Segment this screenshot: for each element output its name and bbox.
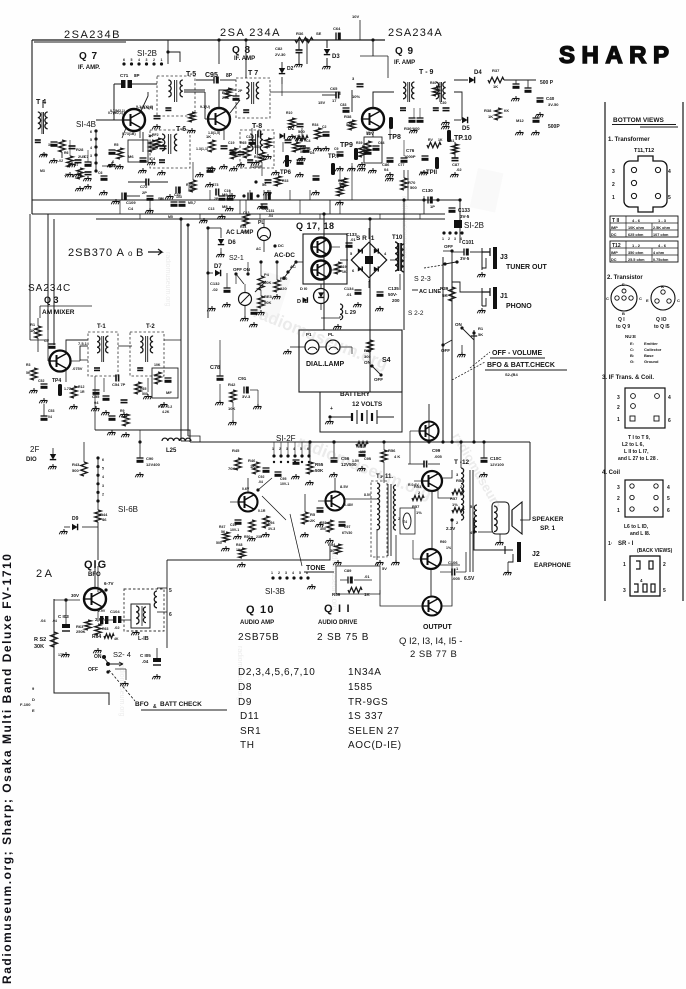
svg-text:&: & [153, 704, 157, 710]
svg-text:R5: R5 [310, 512, 316, 517]
wire q3 vert base [48, 330, 49, 361]
svg-text:500P: 500P [548, 124, 560, 130]
svg-text:C4: C4 [150, 156, 156, 161]
svg-text:4: 4 [90, 146, 92, 150]
svg-text:2SA234B: 2SA234B [64, 29, 121, 41]
svg-text:2: 2 [448, 237, 450, 241]
svg-text:C78: C78 [210, 365, 220, 371]
svg-text:C9: C9 [334, 147, 339, 151]
svg-text:AC LAMP: AC LAMP [226, 230, 253, 236]
svg-text:.02: .02 [456, 167, 462, 172]
svg-text:C71: C71 [120, 73, 129, 78]
svg-text:L25: L25 [166, 448, 177, 454]
svg-text:R42: R42 [228, 382, 236, 387]
label 0.17V [258, 509, 266, 513]
transistor Q16 [84, 588, 106, 610]
svg-text:1K: 1K [438, 138, 443, 142]
label BFO BATT CHECK [109, 670, 227, 710]
panel title BOTTOM VIEWS [612, 117, 678, 127]
wire T9 bottom loop [454, 92, 462, 120]
svg-text:R5: R5 [114, 143, 119, 147]
test point TP7 [328, 154, 341, 175]
cap x268 y196 [257, 193, 271, 210]
svg-text:C4: C4 [306, 139, 311, 143]
wire t12 top [459, 440, 462, 468]
svg-text:OFF ON: OFF ON [233, 267, 250, 272]
svg-text:DC: DC [611, 258, 617, 262]
label Q8 [232, 45, 251, 56]
svg-text:10V: 10V [352, 14, 359, 19]
wire q13 emitter [438, 489, 452, 498]
svg-text:4. Coil: 4. Coil [602, 470, 620, 476]
svg-text:7.5.1: 7.5.1 [78, 341, 88, 346]
transformer T-9 left [400, 82, 414, 110]
svg-text:3: 3 [454, 237, 456, 241]
svg-text:4: 4 [138, 58, 140, 62]
transformer T-7 [236, 78, 270, 118]
svg-text:.01: .01 [306, 147, 311, 151]
svg-text:4.2K: 4.2K [162, 410, 170, 414]
svg-text:10K: 10K [154, 363, 161, 367]
misc w b8 [340, 108, 420, 186]
label S1-3B [265, 584, 315, 596]
box r59 [336, 566, 380, 594]
label 2.9v [98, 609, 106, 613]
svg-text:MF: MF [166, 390, 172, 395]
svg-text:R30: R30 [254, 155, 260, 159]
svg-text:4: 4 [668, 169, 671, 175]
svg-text:R60: R60 [440, 540, 446, 544]
transistor Q9 [362, 108, 384, 130]
svg-text:DIAL.LAMP: DIAL.LAMP [306, 361, 344, 368]
cluster x80 y170 [74, 163, 92, 191]
cluster q16 base [76, 616, 108, 634]
label 15V [318, 100, 325, 105]
wire speaker link [478, 531, 492, 533]
label 1P [430, 204, 435, 209]
resistor R44b [95, 501, 108, 560]
svg-text:1: 1 [271, 571, 273, 575]
svg-text:5: 5 [131, 58, 133, 62]
label 6.5V [464, 576, 475, 582]
wire left vertical x54 [53, 219, 55, 345]
wire x424 v [423, 196, 425, 214]
svg-text:4: 4 [668, 395, 671, 401]
wire q3 bias [30, 338, 49, 352]
panel transistor view B [646, 284, 680, 310]
svg-text:5: 5 [90, 138, 92, 142]
resistor R37 [488, 68, 504, 89]
svg-text:5: 5 [667, 496, 670, 502]
ecap 103 [171, 195, 186, 207]
transformer T-8 [240, 130, 274, 168]
svg-text:o: o [128, 249, 133, 258]
svg-text:M3: M3 [40, 169, 45, 173]
label OFF c101 [443, 244, 454, 253]
transformer T-11 label [376, 474, 393, 480]
resistor R43 [72, 442, 87, 476]
svg-text:04: 04 [384, 167, 389, 172]
svg-text:2P: 2P [142, 190, 147, 195]
label M9 [222, 192, 235, 198]
svg-text:C77: C77 [398, 163, 404, 167]
svg-text:1.5V: 1.5V [352, 459, 360, 463]
svg-text:3: 3 [285, 571, 287, 575]
wire ps to q17 box [296, 261, 303, 263]
transistor Q18 [312, 261, 331, 280]
wire Q8 top [219, 90, 236, 108]
svg-text:C9B: C9B [364, 457, 371, 461]
diode D7 [206, 264, 222, 276]
svg-text:.005: .005 [434, 454, 443, 459]
svg-text:TP9: TP9 [340, 142, 353, 149]
label OUTPUT [423, 624, 453, 631]
svg-text:1S 337: 1S 337 [348, 711, 383, 722]
switch s1-2f dots [272, 447, 311, 463]
resistor R70 [401, 170, 418, 190]
svg-text:.04: .04 [258, 480, 263, 484]
label Q3 voltages [72, 341, 88, 371]
svg-text:AM MIXER: AM MIXER [42, 309, 75, 316]
svg-text:R40: R40 [430, 81, 436, 85]
svg-text:C30: C30 [440, 101, 446, 105]
wire acdc right [300, 239, 303, 241]
box battery [320, 392, 402, 432]
wire t5 q8 link [184, 92, 208, 119]
svg-text:2 SB 77 B: 2 SB 77 B [410, 649, 457, 660]
wire y200 drops [210, 190, 310, 200]
capacitor c52 [38, 379, 48, 403]
wire x220 c78 [215, 340, 223, 405]
svg-text:C64: C64 [378, 141, 384, 145]
svg-text:R65: R65 [240, 141, 246, 145]
svg-text:1: 1 [612, 195, 615, 201]
diode D2b [280, 126, 295, 139]
switch s1-3b dots [271, 571, 310, 590]
wire vol gnd [457, 345, 465, 357]
transformer T-7 label [248, 70, 258, 77]
blob q3 area3 [44, 339, 56, 349]
wire lamps [283, 347, 352, 354]
svg-text:L II to L I7,: L II to L I7, [624, 449, 649, 455]
svg-text:T-6: T-6 [176, 126, 186, 133]
svg-text:.04: .04 [40, 618, 46, 623]
svg-text:R28: R28 [76, 147, 84, 152]
svg-text:T 7: T 7 [248, 70, 258, 77]
svg-text:0.7(M2,1): 0.7(M2,1) [108, 111, 123, 115]
label .04 c103 [52, 619, 57, 623]
panel borders [605, 102, 683, 601]
svg-text:.02: .02 [114, 625, 120, 630]
svg-text:3: 3 [617, 485, 620, 491]
svg-text:OFF - VOLUME: OFF - VOLUME [492, 350, 542, 357]
test point TP8 [388, 117, 401, 141]
svg-text:J2: J2 [532, 551, 540, 558]
transformer T-2 label [146, 324, 155, 330]
transistor Q7 [123, 109, 145, 131]
capacitor C64 [330, 26, 341, 40]
diode D2 [279, 62, 294, 84]
resistor R53 [412, 484, 424, 501]
svg-text:200: 200 [392, 298, 400, 303]
capacitor C71 [114, 73, 157, 120]
svg-text:PL: PL [258, 220, 264, 226]
cluster under Q10 [230, 516, 275, 567]
panel sr1 box [623, 556, 666, 596]
svg-text:5K: 5K [442, 293, 449, 298]
svg-text:C130: C130 [422, 188, 433, 193]
svg-text:SELEN 27: SELEN 27 [348, 726, 400, 737]
wire j3-j1 step [452, 252, 482, 292]
svg-text:3V-3: 3V-3 [242, 394, 251, 399]
resistor R80 [274, 276, 288, 292]
wire T5 to Q8 [184, 89, 205, 91]
svg-text:C65: C65 [330, 86, 338, 91]
svg-text:5: 5 [663, 588, 666, 594]
wire bfo line down [94, 560, 96, 588]
label r60 [440, 540, 452, 550]
wire mixer outputs [80, 346, 132, 360]
label AC LINE [412, 289, 441, 295]
wire right rail x530 [520, 519, 530, 521]
wire q16 collector up [97, 566, 99, 592]
capacitor C91 [238, 376, 251, 399]
svg-text:SI-4B: SI-4B [76, 120, 96, 129]
svg-text:R57: R57 [450, 496, 458, 501]
label Q10 type [238, 632, 280, 643]
label 2SA234C [28, 283, 71, 294]
svg-text:2.5K ohm: 2.5K ohm [653, 226, 671, 230]
svg-text:2: 2 [617, 496, 620, 502]
label d10 small [300, 286, 308, 303]
label SPEAKER SP1 [532, 516, 564, 532]
svg-text:2SA234A: 2SA234A [388, 27, 443, 39]
svg-text:177: 177 [58, 653, 64, 657]
panel coil caption [624, 524, 651, 537]
svg-text:R39: R39 [440, 286, 449, 291]
wire mid bus y219 [96, 218, 445, 220]
svg-text:3V-5: 3V-5 [460, 256, 470, 261]
resistor 500 right [296, 129, 308, 140]
label 2SA 234A [220, 27, 281, 39]
svg-text:6: 6 [169, 612, 172, 618]
svg-text:C I05: C I05 [140, 653, 151, 658]
svg-text:70K: 70K [228, 466, 235, 471]
coil L18 [131, 591, 157, 642]
resistor R5 2K [300, 494, 316, 537]
blob a4 [311, 176, 319, 195]
svg-text:SI-3B: SI-3B [265, 587, 285, 596]
svg-text:C13: C13 [208, 207, 214, 211]
resistor R30 [254, 145, 270, 162]
svg-text:0.48V: 0.48V [344, 503, 354, 507]
svg-text:C91: C91 [238, 376, 247, 381]
svg-text:C95: C95 [280, 477, 286, 481]
component cluster under Q8 [206, 134, 262, 171]
cluster x318 y130 [312, 123, 330, 151]
svg-text:R45: R45 [232, 448, 240, 453]
label 1.5V [352, 459, 360, 463]
transformer T-1 label [97, 324, 106, 330]
svg-text:C54 7P: C54 7P [112, 382, 126, 387]
transformer T12 secondary [470, 504, 477, 535]
resistor R83 [258, 290, 273, 308]
transformer T-9 right [433, 82, 446, 110]
label AC-DC [273, 243, 295, 259]
label 2.3V [446, 526, 455, 531]
svg-text:R63: R63 [102, 627, 108, 631]
svg-text:C135: C135 [388, 286, 399, 291]
svg-text:1 - 3: 1 - 3 [658, 218, 667, 223]
svg-text:OFF: OFF [374, 377, 383, 382]
svg-text:NU:E: NU:E [625, 334, 636, 339]
svg-text:SI-2F: SI-2F [276, 434, 296, 443]
svg-text:R47: R47 [219, 525, 225, 529]
wire t11 top [376, 470, 378, 483]
label C133 [449, 208, 471, 219]
svg-text:2SA 234A: 2SA 234A [220, 27, 281, 39]
component cluster T4 right [42, 140, 76, 167]
svg-text:C82: C82 [275, 46, 283, 51]
wire y214 drops [120, 200, 340, 214]
svg-text:4 ohm: 4 ohm [653, 251, 665, 255]
label F-100 [20, 702, 31, 707]
svg-text:C5: C5 [44, 339, 49, 343]
svg-text:AC: AC [290, 264, 296, 269]
battery cells [325, 406, 394, 424]
b9 parts [64, 140, 92, 181]
svg-text:5: 5 [668, 195, 671, 201]
label 2U3 [76, 147, 86, 159]
svg-text:TONE: TONE [306, 565, 326, 572]
wire ps area top [207, 228, 209, 318]
svg-text:D4: D4 [310, 151, 315, 155]
gnd b8 [347, 124, 449, 181]
label AC LAMP [226, 230, 253, 236]
capacitor C105 [140, 630, 161, 679]
label OFF-VOLUME [470, 350, 545, 368]
svg-text:6: 6 [668, 418, 671, 424]
svg-text:9-1 V(X): 9-1 V(X) [140, 106, 153, 110]
label R36-100 [404, 118, 424, 131]
label C13 [208, 207, 214, 211]
svg-text:OFF: OFF [88, 667, 98, 673]
svg-text:M5: M5 [168, 215, 173, 219]
svg-text:T-1: T-1 [97, 324, 106, 330]
wire q15 loop [380, 520, 452, 606]
blob mid1 [249, 310, 257, 327]
svg-text:C: C [606, 296, 609, 301]
blob a2 [233, 89, 243, 101]
label C135 [377, 286, 401, 303]
wire q14 base [413, 540, 421, 559]
wire q13 collector right [441, 470, 452, 478]
svg-text:.01: .01 [346, 292, 352, 297]
svg-text:C10C: C10C [490, 456, 502, 461]
svg-text:C92: C92 [258, 475, 264, 479]
wire l18 right [167, 545, 330, 648]
svg-text:D4: D4 [474, 70, 482, 76]
test point TP4 [52, 378, 62, 396]
label Q8 IF AMP [234, 56, 255, 62]
svg-text:500: 500 [254, 145, 260, 149]
wire battery-left vertical [323, 214, 325, 330]
svg-text:-02: -02 [212, 287, 219, 292]
svg-text:8P: 8P [226, 73, 233, 79]
panel 5 sr1 label [608, 541, 673, 554]
svg-text:-02: -02 [64, 173, 69, 177]
svg-text:50V-: 50V- [388, 292, 398, 297]
switch s1-2f verticals [274, 442, 309, 456]
capacitor C136 [344, 232, 362, 297]
label PHONO [506, 303, 532, 310]
svg-text:107 ohm: 107 ohm [653, 233, 669, 237]
wire q13-q14 chain [431, 491, 432, 596]
wire t10 down [399, 274, 401, 290]
svg-text:S2-1: S2-1 [229, 255, 244, 262]
cluster x340 y150 [334, 147, 344, 171]
component cluster under Q7 [128, 132, 167, 173]
capacitor C82 [275, 40, 303, 67]
svg-text:1: 1 [161, 58, 163, 62]
wire q8 emitter down [223, 129, 225, 140]
svg-text:3. IF Trans. & Coil.: 3. IF Trans. & Coil. [602, 375, 654, 381]
svg-text:3: 3 [617, 395, 620, 401]
transformer T-12 [456, 468, 473, 572]
svg-text:R19: R19 [340, 265, 346, 269]
logo SHARP [559, 42, 671, 69]
transistor Q13 [422, 471, 442, 491]
capacitor C103 [40, 600, 70, 657]
wire audio right vertical [529, 442, 531, 520]
svg-text:10K: 10K [228, 406, 235, 411]
diode SI-2F [48, 448, 56, 469]
label Q17-18 [296, 221, 335, 231]
panel transformer pins [612, 167, 671, 201]
label S2-1 [229, 255, 244, 262]
svg-text:1%: 1% [446, 546, 452, 550]
label ON vol [455, 322, 464, 330]
label AM MIXER [40, 306, 92, 317]
svg-text:C52: C52 [38, 379, 44, 383]
component 10V label [352, 14, 360, 40]
svg-text:M12: M12 [516, 118, 525, 123]
svg-text:C95: C95 [205, 72, 218, 79]
svg-text:6: 6 [102, 458, 104, 462]
box 1K C64 [364, 131, 384, 173]
svg-text:SR1: SR1 [240, 726, 261, 737]
label C78 [210, 360, 224, 381]
svg-text:0.75ohm: 0.75ohm [653, 258, 669, 262]
wire q7 collector up [141, 92, 148, 111]
ground s24 [120, 681, 128, 686]
svg-text:D I0: D I0 [300, 286, 308, 291]
svg-text:0.6V: 0.6V [242, 487, 250, 491]
label 10V q9 [352, 94, 360, 99]
ecap row2 [219, 189, 234, 201]
blob a3 [295, 160, 303, 177]
svg-text:2K: 2K [310, 518, 315, 523]
cluster under q9 left [356, 141, 372, 167]
svg-text:E:: E: [630, 341, 634, 346]
svg-text:Base: Base [644, 353, 654, 358]
svg-text:10V-1: 10V-1 [280, 482, 289, 486]
svg-text:D: D [32, 697, 35, 702]
svg-text:OFF: OFF [441, 348, 450, 353]
svg-text:C55: C55 [92, 394, 100, 399]
svg-text:C72: C72 [140, 184, 148, 189]
svg-text:1: 1 [617, 508, 620, 514]
